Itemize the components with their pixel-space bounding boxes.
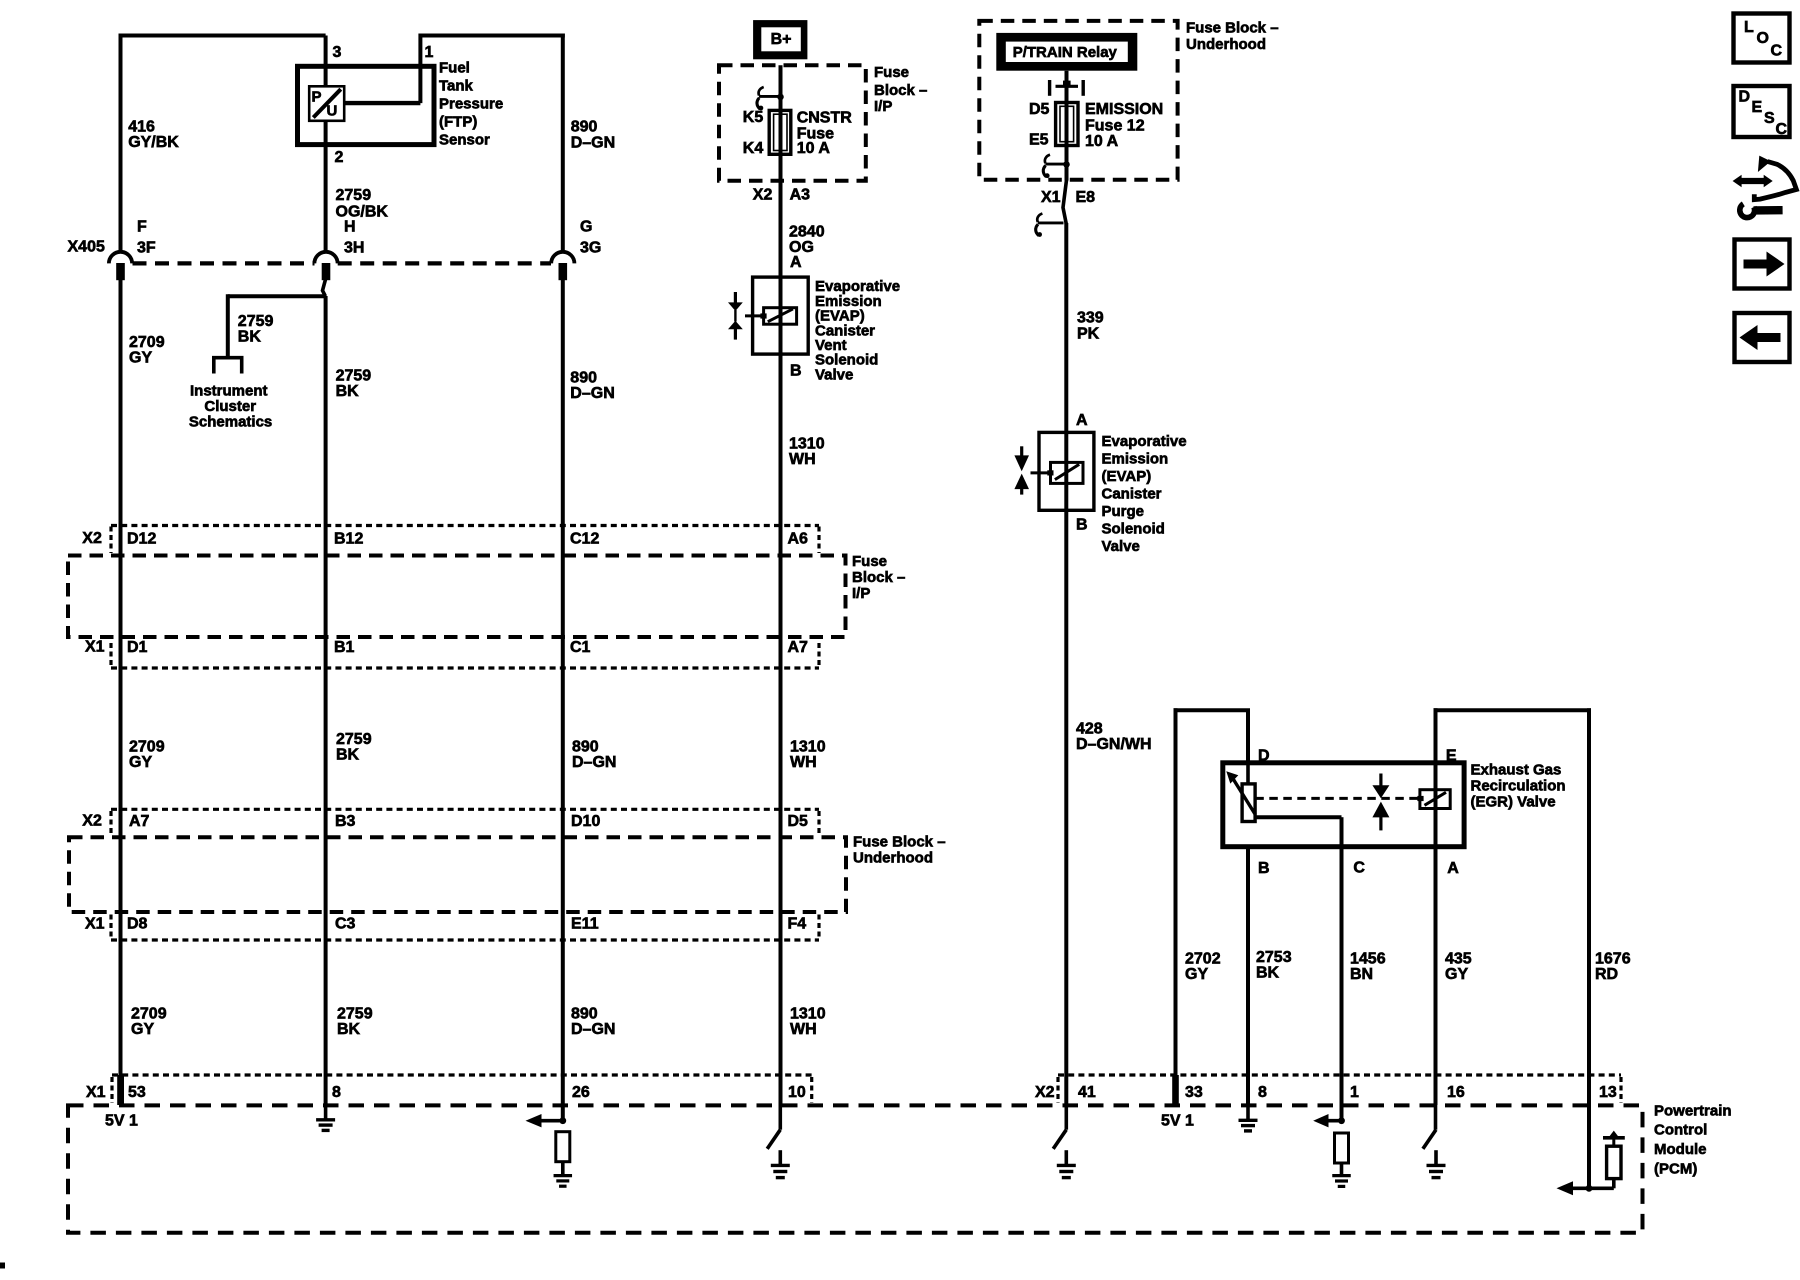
svg-text:Cluster: Cluster bbox=[204, 398, 256, 415]
svg-text:P/TRAIN Relay: P/TRAIN Relay bbox=[1013, 44, 1118, 61]
resistor pin 13 inside PCM bbox=[1607, 1146, 1621, 1178]
connector hook below emission fuse bbox=[1045, 155, 1050, 164]
svg-text:D: D bbox=[1739, 89, 1751, 106]
EGR solenoid coil bbox=[1417, 796, 1423, 801]
wire 1456 BN EGR pin C vertical bbox=[1340, 847, 1344, 1119]
EGR valve arrows bbox=[1379, 774, 1382, 786]
svg-text:1: 1 bbox=[425, 44, 434, 61]
svg-text:GY: GY bbox=[131, 1021, 154, 1038]
svg-text:Valve: Valve bbox=[1102, 538, 1140, 555]
svg-text:2709: 2709 bbox=[131, 1006, 167, 1023]
svg-text:C12: C12 bbox=[570, 531, 599, 548]
svg-text:Valve: Valve bbox=[815, 366, 853, 383]
svg-text:A: A bbox=[1076, 412, 1088, 429]
off-page connector fork symbol bbox=[212, 356, 244, 360]
svg-text:X2: X2 bbox=[753, 187, 773, 204]
svg-text:E11: E11 bbox=[571, 916, 599, 933]
svg-text:416: 416 bbox=[128, 119, 155, 136]
svg-text:D: D bbox=[1258, 748, 1270, 765]
svg-text:Block –: Block – bbox=[852, 569, 905, 586]
svg-text:X1: X1 bbox=[85, 639, 105, 656]
svg-text:I/P: I/P bbox=[874, 98, 892, 115]
svg-text:2759: 2759 bbox=[238, 313, 274, 330]
svg-text:L: L bbox=[1744, 19, 1754, 36]
svg-text:B1: B1 bbox=[334, 639, 355, 656]
svg-text:C3: C3 bbox=[335, 916, 356, 933]
svg-text:A7: A7 bbox=[129, 813, 150, 830]
svg-text:BK: BK bbox=[238, 329, 262, 346]
svg-text:B: B bbox=[1076, 517, 1088, 534]
svg-text:Tank: Tank bbox=[439, 78, 474, 95]
svg-text:D10: D10 bbox=[571, 813, 600, 830]
svg-text:Fuse Block –: Fuse Block – bbox=[1186, 20, 1279, 37]
wire EGR pin E to A through coil bbox=[1434, 763, 1438, 847]
svg-text:X1: X1 bbox=[86, 1084, 106, 1101]
svg-text:Module: Module bbox=[1654, 1141, 1707, 1158]
svg-text:X2: X2 bbox=[82, 530, 102, 547]
svg-text:Canister: Canister bbox=[1102, 485, 1162, 502]
svg-text:I/P: I/P bbox=[852, 585, 870, 602]
svg-text:(EGR) Valve: (EGR) Valve bbox=[1471, 794, 1556, 811]
connector row X1 D8 C3 E11 F4 dotted line bbox=[111, 938, 819, 941]
svg-text:C: C bbox=[1353, 860, 1365, 877]
B+ power feed box bbox=[753, 20, 807, 59]
colD switch inside PCM bbox=[778, 1105, 782, 1130]
svg-text:890: 890 bbox=[571, 1006, 598, 1023]
wire colD inside vent box bbox=[779, 277, 783, 354]
svg-text:A: A bbox=[1447, 860, 1459, 877]
svg-text:1456: 1456 bbox=[1350, 951, 1386, 968]
svg-text:2709: 2709 bbox=[129, 334, 165, 351]
wire colB jog below connector bbox=[323, 279, 326, 296]
ground colE inside PCM bbox=[1065, 1150, 1069, 1165]
connector X405 terminal F arc and tick bbox=[109, 252, 132, 264]
svg-text:Fuse: Fuse bbox=[852, 553, 887, 570]
svg-text:B12: B12 bbox=[334, 531, 363, 548]
svg-text:B+: B+ bbox=[771, 31, 792, 48]
svg-text:F: F bbox=[137, 219, 147, 236]
wire colD from B+ through fuse block bbox=[779, 65, 783, 277]
svg-text:D12: D12 bbox=[127, 531, 156, 548]
svg-text:F4: F4 bbox=[788, 916, 807, 933]
EGR valve box bbox=[1223, 763, 1464, 847]
relay output bracket symbol bbox=[1048, 80, 1051, 96]
svg-text:K5: K5 bbox=[743, 109, 764, 126]
svg-text:890: 890 bbox=[570, 370, 597, 387]
svg-text:D–GN: D–GN bbox=[571, 135, 615, 152]
svg-text:E8: E8 bbox=[1076, 189, 1096, 206]
EVAP canister vent solenoid valve box bbox=[753, 277, 809, 354]
svg-text:Underhood: Underhood bbox=[853, 850, 933, 867]
svg-text:Fuse 12: Fuse 12 bbox=[1085, 118, 1145, 135]
ground colB inside PCM bbox=[324, 1105, 328, 1119]
svg-text:B: B bbox=[790, 363, 802, 380]
svg-text:2702: 2702 bbox=[1185, 951, 1221, 968]
fuse block underhood dashed box top bbox=[979, 21, 1177, 180]
svg-text:2753: 2753 bbox=[1256, 949, 1292, 966]
svg-text:D8: D8 bbox=[127, 916, 148, 933]
svg-text:A: A bbox=[790, 254, 802, 271]
svg-text:GY/BK: GY/BK bbox=[128, 134, 179, 151]
svg-text:13: 13 bbox=[1599, 1084, 1617, 1101]
svg-text:D–GN: D–GN bbox=[571, 1021, 615, 1038]
fuse block I/P dashed box middle bbox=[68, 556, 846, 638]
vent solenoid coil bbox=[745, 314, 764, 317]
colC PCM arrow left bbox=[538, 1119, 563, 1123]
ground pin 1 inside PCM bbox=[1340, 1163, 1344, 1175]
connector X405 terminal G arc and tick bbox=[551, 252, 574, 264]
connector hook at K5 bbox=[759, 87, 764, 96]
svg-text:GY: GY bbox=[129, 754, 152, 771]
svg-text:G: G bbox=[580, 219, 592, 236]
svg-text:K4: K4 bbox=[743, 140, 764, 157]
svg-text:X1: X1 bbox=[1041, 189, 1061, 206]
svg-text:16: 16 bbox=[1447, 1084, 1465, 1101]
svg-text:BK: BK bbox=[336, 383, 360, 400]
EGR position sensor (potentiometer) bbox=[1246, 763, 1250, 784]
wire 435 GY EGR pin A vertical bbox=[1434, 847, 1438, 1105]
svg-text:B3: B3 bbox=[335, 813, 356, 830]
P/U transducer box of FTP sensor bbox=[309, 86, 344, 121]
colC PCM junction dot bbox=[559, 1117, 566, 1124]
svg-text:Exhaust Gas: Exhaust Gas bbox=[1471, 762, 1562, 779]
svg-text:3F: 3F bbox=[137, 240, 156, 257]
svg-text:53: 53 bbox=[128, 1084, 146, 1101]
pin 1 arrow and junction bbox=[1322, 1119, 1342, 1123]
svg-text:(FTP): (FTP) bbox=[439, 114, 477, 131]
svg-text:PK: PK bbox=[1077, 326, 1100, 343]
svg-text:X2: X2 bbox=[82, 813, 102, 830]
svg-text:Solenoid: Solenoid bbox=[1102, 520, 1165, 537]
svg-text:D–GN: D–GN bbox=[570, 385, 614, 402]
nav icon LOC box bbox=[1734, 14, 1790, 63]
svg-text:E: E bbox=[1752, 99, 1763, 116]
wire 428 D-GN/WH colE vertical bbox=[1064, 510, 1068, 1105]
svg-text:3G: 3G bbox=[580, 240, 601, 257]
wire EGR pin E vertical bbox=[1434, 708, 1438, 763]
svg-text:U: U bbox=[327, 103, 338, 120]
svg-text:GY: GY bbox=[1445, 966, 1468, 983]
svg-text:33: 33 bbox=[1185, 1084, 1203, 1101]
fuse block underhood dashed box middle bbox=[69, 837, 846, 912]
svg-text:8: 8 bbox=[332, 1084, 341, 1101]
svg-text:(EVAP): (EVAP) bbox=[1102, 468, 1152, 485]
svg-text:Fuse: Fuse bbox=[874, 64, 909, 81]
svg-text:C1: C1 bbox=[570, 639, 591, 656]
svg-text:C: C bbox=[1776, 121, 1788, 138]
svg-text:WH: WH bbox=[789, 451, 816, 468]
wire EGR pin D loop left vertical to PCM 33 bbox=[1174, 708, 1178, 1105]
fuse EMISSION Fuse 12 10 A bbox=[1056, 103, 1078, 146]
svg-text:BK: BK bbox=[1256, 965, 1280, 982]
svg-text:339: 339 bbox=[1077, 310, 1104, 327]
svg-text:Instrument: Instrument bbox=[190, 382, 268, 399]
wire EGR pin D loop top horizontal bbox=[1174, 708, 1251, 712]
pin 16 switch inside PCM bbox=[1434, 1105, 1438, 1130]
connector X405 dashed line bbox=[133, 261, 315, 265]
svg-text:CNSTR: CNSTR bbox=[797, 110, 853, 127]
svg-text:Emission: Emission bbox=[1102, 450, 1169, 467]
purge solenoid coil bbox=[1031, 471, 1051, 474]
svg-text:2: 2 bbox=[335, 149, 344, 166]
svg-text:5V 1: 5V 1 bbox=[1161, 1113, 1194, 1130]
wire EGR sensor low ref to pin C bbox=[1255, 815, 1341, 819]
svg-text:BK: BK bbox=[336, 747, 360, 764]
svg-text:D1: D1 bbox=[127, 639, 148, 656]
svg-text:S: S bbox=[1764, 110, 1775, 127]
svg-text:Recirculation: Recirculation bbox=[1471, 778, 1566, 795]
svg-text:O: O bbox=[1757, 30, 1769, 47]
svg-text:1310: 1310 bbox=[790, 739, 826, 756]
resistor colC inside PCM bbox=[556, 1132, 570, 1162]
wire 890 D-GN colC long vertical bbox=[561, 280, 565, 1120]
wire branch to instrument cluster horizontal bbox=[228, 294, 326, 298]
svg-text:2840: 2840 bbox=[789, 224, 825, 241]
wire FTP pin 3 vertical bbox=[324, 36, 328, 87]
ground colC inside PCM bbox=[561, 1162, 565, 1176]
wire FTP pin 1 vertical bbox=[418, 34, 422, 104]
wire EGR right loop vertical to PCM 13 bbox=[1587, 708, 1591, 1105]
wire colE jog at X1 E8 bbox=[1063, 180, 1067, 224]
colA PCM pin tick bbox=[117, 1075, 124, 1105]
svg-text:Pressure: Pressure bbox=[439, 96, 503, 113]
wire 416 GY/BK vertical colA upper bbox=[119, 34, 123, 254]
svg-text:890: 890 bbox=[572, 739, 599, 756]
FTP sensor box bbox=[298, 66, 435, 144]
wire branch to instrument cluster vertical bbox=[226, 294, 230, 358]
svg-text:RD: RD bbox=[1595, 966, 1618, 983]
svg-text:GY: GY bbox=[129, 350, 152, 367]
svg-text:BK: BK bbox=[337, 1021, 361, 1038]
svg-text:H: H bbox=[344, 219, 356, 236]
svg-text:Evaporative: Evaporative bbox=[1102, 433, 1187, 450]
wire FTP pin 2 vertical bbox=[324, 121, 328, 253]
svg-text:10: 10 bbox=[788, 1084, 806, 1101]
svg-text:GY: GY bbox=[1185, 966, 1208, 983]
svg-text:BN: BN bbox=[1350, 966, 1373, 983]
junction dot colD at K5 bbox=[777, 94, 784, 101]
wire top jumper colA to FTP pin 3 bbox=[119, 34, 326, 38]
colE switch inside PCM bbox=[1065, 1105, 1069, 1130]
svg-text:435: 435 bbox=[1445, 951, 1472, 968]
nav icon forward arrow box bbox=[1735, 240, 1790, 289]
svg-text:1310: 1310 bbox=[789, 436, 825, 453]
nav icon back arrow box bbox=[1735, 313, 1790, 362]
wire FTP pin 1 horizontal into P/U box bbox=[344, 101, 420, 105]
svg-text:5V 1: 5V 1 bbox=[105, 1113, 138, 1130]
resistor pin 1 inside PCM bbox=[1335, 1133, 1349, 1163]
svg-text:B: B bbox=[1258, 860, 1270, 877]
svg-text:3: 3 bbox=[333, 44, 342, 61]
PCM dashed box bbox=[68, 1105, 1643, 1232]
svg-text:WH: WH bbox=[790, 754, 817, 771]
wire 1310 WH colD long vertical bbox=[779, 354, 783, 1105]
vent solenoid valve arrows bbox=[734, 292, 737, 303]
svg-text:2709: 2709 bbox=[129, 739, 165, 756]
connector X405 terminal H arc and tick bbox=[314, 252, 337, 264]
EVAP canister purge solenoid valve box bbox=[1039, 432, 1094, 510]
svg-text:Schematics: Schematics bbox=[189, 414, 272, 431]
ground pin 8 EGR inside PCM bbox=[1246, 1105, 1250, 1120]
wire 890 D-GN vertical colC upper bbox=[561, 34, 565, 254]
wire top jumper FTP pin 1 to colC bbox=[420, 34, 564, 38]
connector row X2 A7 B3 D10 D5 dotted line bbox=[111, 808, 819, 811]
svg-text:A3: A3 bbox=[790, 187, 811, 204]
svg-text:Sensor: Sensor bbox=[439, 132, 490, 149]
P/TRAIN Relay box bbox=[996, 33, 1137, 71]
svg-text:D5: D5 bbox=[1029, 101, 1050, 118]
svg-text:2759: 2759 bbox=[336, 731, 372, 748]
fuse CNSTR Fuse 10 A bbox=[769, 110, 791, 154]
svg-text:E: E bbox=[1446, 748, 1457, 765]
ground pin 16 inside PCM bbox=[1434, 1150, 1438, 1165]
PCM connector row dotted line X1 side bbox=[112, 1073, 812, 1076]
svg-text:(PCM): (PCM) bbox=[1654, 1161, 1697, 1178]
connector row X1 D1 B1 C1 A7 dotted line bbox=[111, 666, 819, 669]
svg-text:41: 41 bbox=[1078, 1084, 1096, 1101]
wire 2709 GY colA long vertical bbox=[119, 280, 123, 1077]
svg-text:D–GN/WH: D–GN/WH bbox=[1076, 736, 1152, 753]
svg-text:WH: WH bbox=[790, 1021, 817, 1038]
pin 13 voltage source bar bbox=[1603, 1136, 1625, 1140]
svg-text:2759: 2759 bbox=[337, 1006, 373, 1023]
svg-text:C: C bbox=[1771, 43, 1783, 60]
EGR sensor wiper arrow bbox=[1234, 780, 1256, 815]
nav icon arrows and wrench bbox=[1741, 178, 1766, 184]
svg-text:Powertrain: Powertrain bbox=[1654, 1102, 1732, 1119]
svg-text:10 A: 10 A bbox=[797, 140, 831, 157]
svg-text:10 A: 10 A bbox=[1085, 133, 1119, 150]
nav icon DESC box bbox=[1734, 86, 1790, 137]
wire 2753 BK EGR pin B vertical bbox=[1246, 847, 1250, 1105]
svg-text:26: 26 bbox=[572, 1084, 590, 1101]
stray mark bottom left bbox=[0, 1263, 5, 1269]
ground colD inside PCM bbox=[778, 1150, 782, 1165]
wire pin 33 tick into PCM bbox=[1172, 1075, 1179, 1106]
PCM connector row dotted line X2 side bbox=[1058, 1073, 1621, 1076]
svg-text:Control: Control bbox=[1654, 1122, 1707, 1139]
svg-text:X1: X1 bbox=[85, 915, 105, 932]
svg-text:1310: 1310 bbox=[790, 1006, 826, 1023]
wire colE inside purge box bbox=[1064, 432, 1068, 510]
svg-text:X405: X405 bbox=[68, 239, 105, 256]
wire EGR pin D vertical bbox=[1246, 710, 1250, 763]
connector row X2 D12 B12 C12 A6 dotted line bbox=[111, 524, 819, 527]
svg-text:X2: X2 bbox=[1035, 1084, 1055, 1101]
pin 13 wire and pullup network bbox=[1587, 1105, 1591, 1188]
svg-text:D–GN: D–GN bbox=[572, 754, 616, 771]
svg-text:P: P bbox=[312, 89, 322, 106]
svg-text:Block –: Block – bbox=[874, 82, 927, 99]
svg-text:EMISSION: EMISSION bbox=[1085, 101, 1163, 118]
svg-text:Fuse Block –: Fuse Block – bbox=[853, 834, 946, 851]
svg-text:890: 890 bbox=[571, 119, 598, 136]
svg-text:2759: 2759 bbox=[336, 187, 372, 204]
svg-text:A6: A6 bbox=[788, 531, 809, 548]
purge solenoid valve arrows bbox=[1020, 446, 1023, 456]
svg-text:A7: A7 bbox=[788, 639, 809, 656]
svg-text:2759: 2759 bbox=[336, 368, 372, 385]
EGR internal dashed link bbox=[1255, 797, 1420, 800]
svg-text:E5: E5 bbox=[1029, 132, 1049, 149]
svg-text:D5: D5 bbox=[788, 813, 809, 830]
wire 339 PK colE vertical bbox=[1064, 223, 1068, 432]
fuse block I/P dashed box top bbox=[719, 65, 866, 180]
svg-text:3H: 3H bbox=[344, 240, 364, 257]
svg-text:428: 428 bbox=[1076, 721, 1103, 738]
svg-text:1676: 1676 bbox=[1595, 951, 1631, 968]
junction dot colE below fuse bbox=[1063, 161, 1070, 168]
wire EGR pin E loop top horizontal bbox=[1434, 708, 1592, 712]
svg-text:Purge: Purge bbox=[1102, 503, 1145, 520]
wire 2759 BK colB long vertical bbox=[324, 296, 328, 1105]
wire colE from relay down through fuse bbox=[1065, 71, 1069, 181]
connector hook at E8 bbox=[1037, 214, 1042, 223]
svg-text:Fuel: Fuel bbox=[439, 60, 470, 77]
svg-text:1: 1 bbox=[1350, 1084, 1359, 1101]
svg-text:8: 8 bbox=[1258, 1084, 1267, 1101]
svg-text:Underhood: Underhood bbox=[1186, 36, 1266, 53]
